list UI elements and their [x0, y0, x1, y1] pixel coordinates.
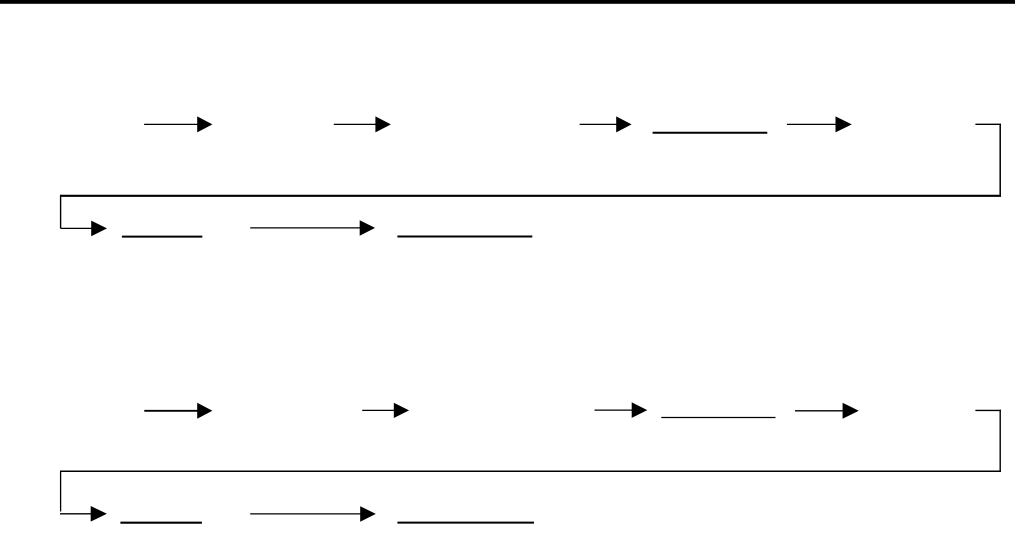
diagram 1 : feedback wire right vertical segment: [999, 124, 1001, 197]
diagram 1 : feedback wire left vertical segment: [60, 195, 62, 229]
diagram 2 : arrow B3 (row 1, third): [595, 402, 648, 418]
diagram 2 : blank label line W2: [397, 522, 534, 524]
diagram 2 : arrow B2 (row 1, second): [362, 403, 409, 418]
diagram 1 : blank label line U2: [122, 236, 202, 238]
diagram 1 : arrow A3 (row 1, third): [580, 116, 632, 132]
diagram 2 : feedback wire top horizontal segment: [975, 409, 1001, 411]
diagram 1 : feedback wire top horizontal segment: [975, 123, 1001, 125]
diagram 1 : feedback wire return horizontal line: [60, 195, 1001, 197]
diagram 1 : arrow A5 (row 2, re-entry): [61, 221, 107, 237]
diagram 2 : arrow B4 (row 1, fourth): [795, 403, 859, 419]
diagram 2 : arrow B1 (row 1, first): [144, 403, 212, 419]
diagram 1 : arrow A2 (row 1, second): [334, 116, 391, 132]
diagram 2 : blank label line V1: [661, 417, 775, 419]
diagram 2 : arrow B5 (row 2, re-entry): [60, 506, 107, 522]
diagram 1 : blank label line U1: [653, 132, 768, 134]
diagram 1 : arrow A1 (row 1, first): [144, 116, 212, 132]
diagram 1 : arrow A6 (row 2, long): [250, 220, 375, 236]
diagram 2 : arrow B6 (row 2, long): [250, 506, 376, 522]
diagram 2 : feedback wire left vertical segment: [60, 471, 62, 512]
diagram 1 : arrow A4 (row 1, fourth): [787, 116, 852, 132]
diagram 1 : blank label line U3: [397, 236, 532, 238]
top header bar: [0, 0, 1015, 4]
diagram 2 : feedback wire return horizontal line: [60, 470, 1001, 472]
diagram 2 : feedback wire right vertical segment: [999, 410, 1001, 472]
diagram 2 : blank label line W1: [120, 522, 201, 524]
